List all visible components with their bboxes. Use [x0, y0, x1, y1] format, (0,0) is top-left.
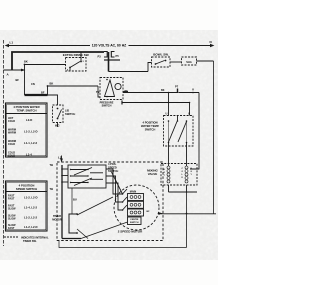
svg-text:V: V — [192, 88, 194, 92]
svg-text:FAST: FAST — [8, 227, 15, 230]
svg-text:4 POSITION: 4 POSITION — [142, 121, 157, 125]
svg-text:L1-2, L2-D: L1-2, L2-D — [24, 225, 38, 229]
svg-text:WATER TEMP.: WATER TEMP. — [141, 124, 159, 128]
svg-text:WARM: WARM — [8, 132, 16, 135]
svg-text:U: U — [166, 112, 168, 116]
svg-text:BK: BK — [161, 89, 165, 92]
svg-text:SPEED: SPEED — [108, 166, 117, 170]
svg-text:BK: BK — [24, 60, 28, 64]
svg-text:120 VOLTS AC, 60 HZ: 120 VOLTS AC, 60 HZ — [92, 44, 126, 48]
svg-text:VALVE: VALVE — [148, 172, 158, 176]
svg-text:2 SPEED MOTOR: 2 SPEED MOTOR — [118, 230, 143, 234]
svg-text:COLD: COLD — [8, 120, 15, 123]
svg-text:L1-2, L2-D: L1-2, L2-D — [24, 196, 38, 200]
svg-text:N: N — [210, 40, 212, 44]
svg-text:MAIN: MAIN — [130, 191, 137, 194]
svg-text:BU: BU — [73, 198, 77, 202]
svg-text:TB: TB — [96, 90, 100, 94]
svg-text:SWITCH: SWITCH — [102, 105, 112, 108]
svg-text:L1-1, L2-2: L1-1, L2-2 — [24, 141, 38, 145]
svg-text:L2-D: L2-D — [26, 118, 32, 122]
svg-text:TIMER SW.: TIMER SW. — [23, 239, 37, 243]
svg-text:SWITCH: SWITCH — [145, 128, 156, 132]
svg-text:4 POS.: 4 POS. — [108, 162, 117, 166]
svg-text:SWITCH: SWITCH — [65, 112, 75, 116]
svg-text:P5: P5 — [125, 89, 129, 93]
svg-text:TEMP. SWITCH: TEMP. SWITCH — [17, 109, 37, 113]
svg-text:BF: BF — [16, 78, 20, 82]
svg-text:P5: P5 — [116, 54, 120, 58]
svg-text:COLD: COLD — [8, 143, 15, 146]
svg-text:CN: CN — [31, 82, 35, 86]
svg-text:L1: L1 — [10, 41, 14, 45]
svg-text:WG: WG — [55, 124, 59, 128]
svg-text:BF: BF — [41, 91, 45, 95]
svg-text:L1-4, L2-2: L1-4, L2-2 — [24, 206, 38, 210]
svg-text:L1-2, L2-2: L1-2, L2-2 — [24, 216, 38, 220]
svg-text:L2: L2 — [58, 156, 62, 160]
svg-text:BOWL SW.: BOWL SW. — [153, 53, 169, 57]
svg-text:SWITCH: SWITCH — [130, 222, 139, 224]
svg-text:P3: P3 — [98, 55, 102, 59]
svg-text:SHA: SHA — [186, 60, 192, 64]
svg-text:TIMER: TIMER — [53, 214, 61, 218]
svg-text:P7: P7 — [175, 85, 179, 89]
svg-text:SPEED SWITCH: SPEED SWITCH — [16, 187, 37, 191]
svg-text:BK: BK — [50, 82, 54, 86]
svg-text:L1-4: L1-4 — [26, 153, 32, 157]
svg-text:U: U — [188, 112, 190, 116]
svg-text:SLOW: SLOW — [8, 208, 16, 211]
svg-text:CENTRI: CENTRI — [130, 219, 139, 221]
svg-text:INDICATES INTERNAL: INDICATES INTERNAL — [21, 235, 49, 239]
svg-text:SWITCH: SWITCH — [108, 169, 118, 173]
svg-text:L1-2, L2-D: L1-2, L2-D — [24, 130, 38, 134]
svg-text:COLD: COLD — [8, 155, 15, 158]
svg-text:TB: TB — [50, 187, 54, 191]
svg-text:TB: TB — [50, 163, 54, 167]
svg-text:FAST: FAST — [8, 198, 15, 201]
svg-text:LID: LID — [65, 109, 69, 113]
svg-text:EXTRA RINSE SW.: EXTRA RINSE SW. — [63, 53, 90, 57]
svg-text:MOTOR: MOTOR — [52, 218, 62, 222]
svg-text:SLOW: SLOW — [8, 218, 16, 221]
